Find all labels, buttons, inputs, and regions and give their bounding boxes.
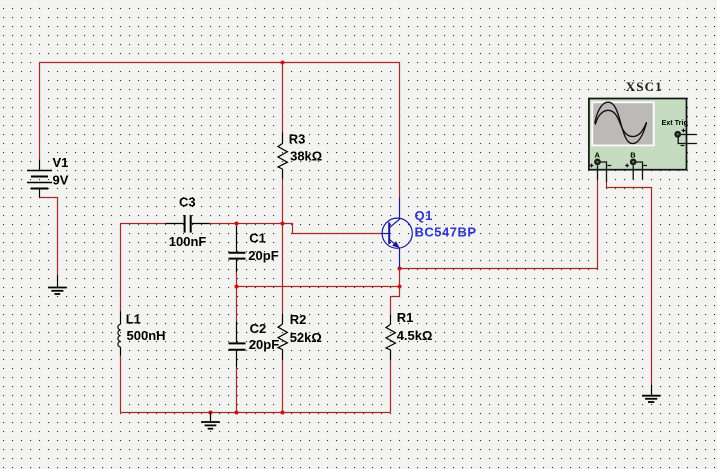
wire R1 top jog <box>391 287 400 316</box>
wire mid rail C1 to R1 node <box>237 286 400 288</box>
wire bottom rail <box>121 412 391 414</box>
node mid rail / R1 <box>397 284 401 288</box>
wire C2 bottom <box>236 367 238 412</box>
svg-text:C3: C3 <box>179 194 196 209</box>
wire battery bottom to ground <box>40 198 58 276</box>
wire C3 rail right <box>210 223 283 225</box>
svg-text:C2: C2 <box>250 321 267 336</box>
svg-text:V1: V1 <box>53 155 69 170</box>
svg-text:L1: L1 <box>126 311 141 326</box>
svg-text:500nH: 500nH <box>127 328 166 343</box>
node bottom rail / ground <box>208 410 212 414</box>
plus minus marks <box>590 129 686 168</box>
svg-text:Ext Trig: Ext Trig <box>662 118 688 127</box>
svg-text:B: B <box>630 150 636 159</box>
node bottom rail / C2 <box>234 410 238 414</box>
junction node dots <box>208 60 401 414</box>
wire C1 bottom red <box>236 272 238 287</box>
wire C2 top <box>236 287 238 322</box>
svg-text:A: A <box>595 150 601 159</box>
wire R2 top branch <box>282 224 284 314</box>
svg-text:9V: 9V <box>53 172 69 187</box>
wire R1 bottom <box>390 360 392 413</box>
node C3 / C1 <box>234 221 238 225</box>
svg-text:20pF: 20pF <box>249 337 279 352</box>
battery V1 <box>27 159 52 197</box>
svg-text:52kΩ: 52kΩ <box>290 330 322 345</box>
resistor R2 <box>278 314 287 360</box>
pin stubs <box>598 135 697 183</box>
svg-text:38kΩ: 38kΩ <box>290 148 322 163</box>
node top rail / R3 <box>280 60 284 64</box>
sine wave small <box>595 110 646 136</box>
ground (scope) <box>642 385 660 402</box>
capacitor C1 <box>229 226 246 272</box>
terminal A <box>594 159 601 166</box>
wire base jog to Q1 <box>283 224 381 234</box>
wire emitter rail to scope A <box>400 180 598 269</box>
ground (battery) <box>48 275 67 294</box>
svg-text:R1: R1 <box>397 310 414 325</box>
wire L1 bottom <box>120 356 122 413</box>
svg-text:R2: R2 <box>290 312 307 327</box>
wire C3 rail left <box>121 224 166 312</box>
node C3 / R3 / R2 / base <box>280 221 284 225</box>
svg-text:XSC1: XSC1 <box>626 79 663 94</box>
capacitor C3 <box>165 215 210 233</box>
node bottom rail / R2 <box>280 410 284 414</box>
terminal B <box>630 159 637 166</box>
svg-text:20pF: 20pF <box>248 248 278 263</box>
svg-text:C1: C1 <box>249 230 266 245</box>
wire R3 top <box>282 63 284 133</box>
resistor R1 <box>386 315 395 360</box>
svg-text:4.5kΩ: 4.5kΩ <box>397 328 433 343</box>
terminal Ext Trig <box>674 131 681 138</box>
capacitor C2 <box>229 321 246 367</box>
ground (bottom rail) <box>201 413 219 429</box>
wire scope A minus to ground <box>607 182 652 385</box>
inductor L1 <box>118 311 121 356</box>
svg-text:Q1: Q1 <box>415 208 433 223</box>
resistor R3 <box>278 132 287 178</box>
svg-text:R3: R3 <box>289 131 306 146</box>
transistor Q1 <box>381 198 412 267</box>
wire R3 bottom to node <box>282 179 284 224</box>
svg-text:100nF: 100nF <box>169 234 207 249</box>
sine wave large <box>595 102 647 143</box>
svg-text:BC547BP: BC547BP <box>415 224 477 239</box>
wire top rail V1 to Q1 collector <box>40 63 400 198</box>
wire R2 bottom <box>282 360 284 413</box>
scope screen <box>591 101 654 146</box>
node emitter / scope A <box>397 266 401 270</box>
node C1 / mid rail <box>234 284 238 288</box>
wire emitter to R1 node <box>399 269 401 287</box>
